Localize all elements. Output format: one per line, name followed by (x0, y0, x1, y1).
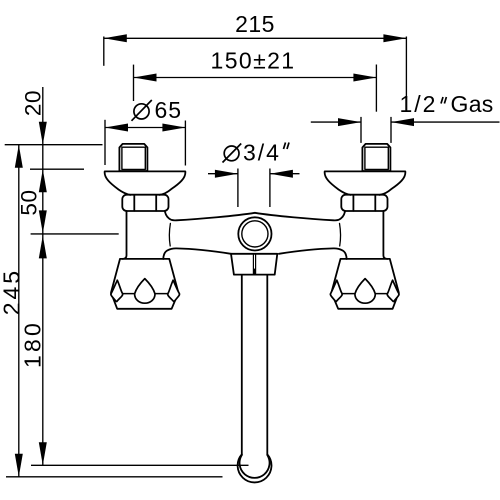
extension line C (31, 233, 119, 235)
left supply square nipple (119, 144, 147, 171)
right handle mid line (331, 293, 398, 295)
dimension 215 right extension (405, 37, 407, 99)
spout end inner arc (240, 455, 270, 478)
svg-text:180: 180 (20, 320, 46, 368)
central boss outer circle (238, 217, 271, 250)
left handle left teardrop (111, 280, 123, 301)
svg-text:20: 20 (21, 90, 46, 116)
extension line A top left (5, 144, 103, 146)
arrow 215 right (383, 34, 406, 42)
arrow 1/2Gas left (338, 118, 361, 126)
arrow ø3/4 left (215, 170, 238, 178)
spout connector split line dark segment (253, 269, 256, 275)
valve/body intersection arc left (169, 223, 170, 246)
bottom reference line 2 (6, 476, 223, 478)
arrow 1/2Gas right (391, 118, 414, 126)
left handle hexagon (111, 259, 178, 309)
body bottom edge right (279, 248, 347, 259)
arrow 215 left (104, 34, 127, 42)
body bottom edge left (163, 248, 231, 259)
dimension ø3/4 right segment (270, 173, 300, 175)
arrow 20 bottom (39, 169, 47, 192)
svg-text:1/2: 1/2 (400, 91, 438, 117)
dimension 1/2Gas left segment (311, 121, 361, 123)
dimension 245 vertical line (18, 145, 20, 477)
dimension ø65 left extension (104, 120, 106, 165)
arrow 245 top (15, 145, 23, 168)
svg-text:50: 50 (16, 189, 41, 215)
label ø3/4" diameter symbol (223, 144, 242, 163)
svg-text:3/4: 3/4 (243, 140, 281, 166)
right handle hexagon (331, 259, 398, 309)
dimension 1/2Gas left extension (360, 117, 362, 143)
left handle center teardrop (135, 279, 155, 304)
svg-text:150±21: 150±21 (211, 48, 296, 74)
left hex nut (122, 195, 168, 211)
left wall flange (105, 171, 186, 195)
svg-text:215: 215 (235, 11, 275, 37)
dimension 150±21 right extension (375, 65, 377, 112)
arrow 150 left (134, 74, 157, 82)
central boss inner circle (242, 221, 268, 247)
spout connector split line (253, 254, 255, 274)
right handle left teardrop (330, 280, 342, 301)
arrow 150 right (353, 74, 376, 82)
arrow 50 bottom (39, 210, 47, 233)
spout connector trapezoid (231, 254, 277, 275)
dimension 1/2Gas right extension (390, 117, 392, 143)
extension line B (30, 168, 84, 170)
svg-text:Gas: Gas (451, 91, 494, 117)
dimension 150±21 left extension (133, 65, 135, 101)
right handle right teardrop (387, 280, 399, 301)
right handle center teardrop (355, 279, 375, 304)
dimension ø3/4 right extension (269, 169, 271, 208)
spout pipe left edge (241, 276, 243, 456)
dimension 215 line (104, 37, 407, 39)
spout end outer arc (238, 454, 272, 482)
dimension ø3/4 left extension (237, 169, 239, 208)
right hex nut (341, 195, 387, 211)
right supply square nipple (362, 144, 390, 171)
left handle right teardrop (168, 280, 180, 301)
right valve outboard edge (383, 211, 387, 259)
svg-text:65: 65 (155, 97, 183, 123)
dimension ø65 right extension (184, 121, 186, 166)
left handle mid line (111, 293, 178, 295)
dimension 150±21 line (134, 77, 377, 79)
dimension ø65 line (105, 127, 185, 129)
arrow ø65 right (162, 124, 185, 132)
arrow ø3/4 right (270, 170, 293, 178)
left valve outboard edge (122, 211, 126, 259)
arrow 245 bottom (15, 454, 23, 477)
dimension 20/50/180 vertical line (42, 87, 44, 465)
dimension 215 left extension (103, 37, 105, 66)
spout pipe right edge (266, 276, 268, 455)
right wall flange (325, 171, 406, 195)
valve/body intersection arc right (340, 223, 341, 246)
body top edge (165, 212, 345, 221)
arrow ø65 left (105, 124, 128, 132)
arrow 180 top (39, 235, 47, 258)
label ø65 diameter symbol (132, 100, 152, 121)
dimension 1/2Gas right segment (391, 121, 500, 123)
arrow 180 bottom (39, 442, 47, 465)
bottom reference line 1 (31, 464, 249, 466)
dimension ø3/4 left segment (208, 173, 238, 175)
svg-text:245: 245 (0, 268, 25, 315)
arrow 20 top (39, 122, 47, 145)
